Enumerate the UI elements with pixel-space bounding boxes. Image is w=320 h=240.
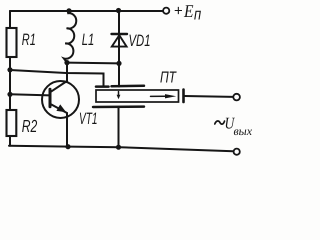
wire PT bottom to ground (118, 108, 120, 148)
wire top rail (+E rail) (10, 10, 163, 12)
svg-text:R2: R2 (22, 116, 38, 136)
resistor R1 (7, 28, 17, 57)
PT internal right arrow (151, 95, 167, 97)
node emitter-ground dot (65, 144, 70, 149)
svg-text:L1: L1 (82, 31, 95, 49)
node L1 top dot (66, 8, 71, 13)
PT top left electrode bar (96, 85, 109, 88)
svg-text:+: + (174, 3, 183, 20)
wire collector net y=63 (67, 62, 119, 65)
node PT ground dot (116, 145, 121, 150)
inductor L1 (64, 12, 76, 63)
node base feedback dot on left rail (7, 67, 12, 72)
node VD1 top dot (116, 8, 121, 13)
label ~Uвых (215, 114, 253, 138)
transistor VT1 base bar (49, 89, 52, 106)
wire collector vertical (66, 63, 68, 81)
node VD1 bottom dot (116, 61, 121, 66)
node L1 bottom dot (64, 60, 69, 65)
PT top right electrode bar (112, 85, 145, 88)
wire bottom rail (ground) (9, 146, 233, 152)
piezo transformer PT body (96, 90, 179, 102)
terminal +Eп (163, 8, 169, 14)
node base dot on left rail (7, 92, 12, 97)
PT internal down arrow (118, 92, 120, 97)
transistor VT1 collector arm (50, 81, 67, 92)
terminal output top (233, 94, 240, 101)
PT bottom electrode bar (93, 105, 144, 108)
diode VD1 vertical lead (118, 11, 120, 87)
svg-text:вых: вых (234, 124, 253, 138)
wire base (10, 94, 50, 95)
label +Eп (174, 1, 201, 24)
diode VD1 cathode bar (112, 33, 128, 35)
resistor R2 (7, 110, 17, 136)
diode VD1 triangle (112, 35, 127, 46)
terminal output bottom (234, 149, 240, 155)
svg-text:ПТ: ПТ (160, 70, 177, 87)
svg-text:п: п (194, 5, 201, 23)
svg-text:R1: R1 (22, 31, 36, 49)
PT output electrode bar (182, 90, 185, 103)
svg-text:VT1: VT1 (79, 110, 98, 128)
svg-text:VD1: VD1 (129, 32, 151, 50)
wire feedback: left rail to PT left top electrode (10, 70, 104, 87)
wire emitter vertical (66, 113, 68, 147)
transistor VT1 emitter arm (50, 104, 67, 113)
wire left rail (9, 11, 11, 146)
svg-text:E: E (183, 1, 193, 21)
transistor VT1 emitter arrow (56, 104, 66, 112)
wire output (185, 95, 234, 98)
transistor VT1 circle (42, 81, 79, 118)
